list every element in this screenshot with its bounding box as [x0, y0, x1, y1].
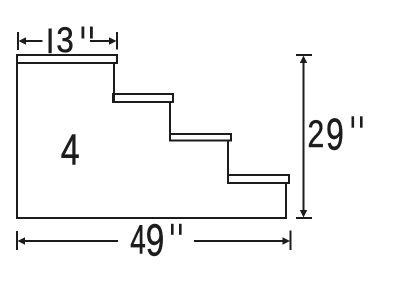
- dim 29 bottom tick: [296, 217, 312, 219]
- svg-text:9: 9: [146, 214, 165, 265]
- svg-text:2: 2: [308, 113, 325, 156]
- label 13 inch marks: [82, 27, 85, 39]
- dim 13 left arrow line: [21, 40, 43, 42]
- svg-text:4: 4: [130, 216, 146, 262]
- dim 29 top arrowhead: [300, 56, 307, 64]
- svg-text:4: 4: [61, 127, 80, 175]
- dim 29 vertical line: [303, 58, 305, 215]
- dim 13 left arrowhead: [19, 37, 27, 44]
- tread T3: [170, 134, 231, 141]
- riser R4: [285, 183, 287, 218]
- riser R2: [169, 102, 171, 141]
- dim 49 right tick: [290, 231, 292, 251]
- floor line: [17, 217, 286, 219]
- tread T2: [113, 94, 173, 102]
- dim 29 top tick: [296, 54, 312, 56]
- riser R3: [227, 141, 229, 184]
- dim 49 left arrowhead: [18, 237, 26, 244]
- left wall: [16, 55, 18, 218]
- dim 49 right line segment: [194, 240, 287, 242]
- dim 29 bottom arrowhead: [300, 210, 307, 218]
- svg-text:3: 3: [56, 20, 73, 60]
- dim 49 right arrowhead: [283, 237, 291, 244]
- tread T4: [228, 175, 289, 183]
- dim 13 right arrowhead: [109, 37, 117, 44]
- dim 13 right arrow line: [90, 40, 113, 42]
- riser R1: [113, 63, 115, 102]
- label 49 inch marks: [171, 224, 174, 235]
- label 13 digit 1 (plain bar): [49, 29, 52, 54]
- dim 49 left line segment: [21, 240, 118, 242]
- dim 13 right extension tick: [116, 32, 118, 50]
- dim 49 left tick: [16, 231, 18, 250]
- svg-text:9: 9: [326, 111, 344, 160]
- tread T1: [17, 55, 117, 63]
- dim 13 left extension tick: [17, 32, 19, 50]
- label 29 inch marks: [352, 116, 355, 127]
